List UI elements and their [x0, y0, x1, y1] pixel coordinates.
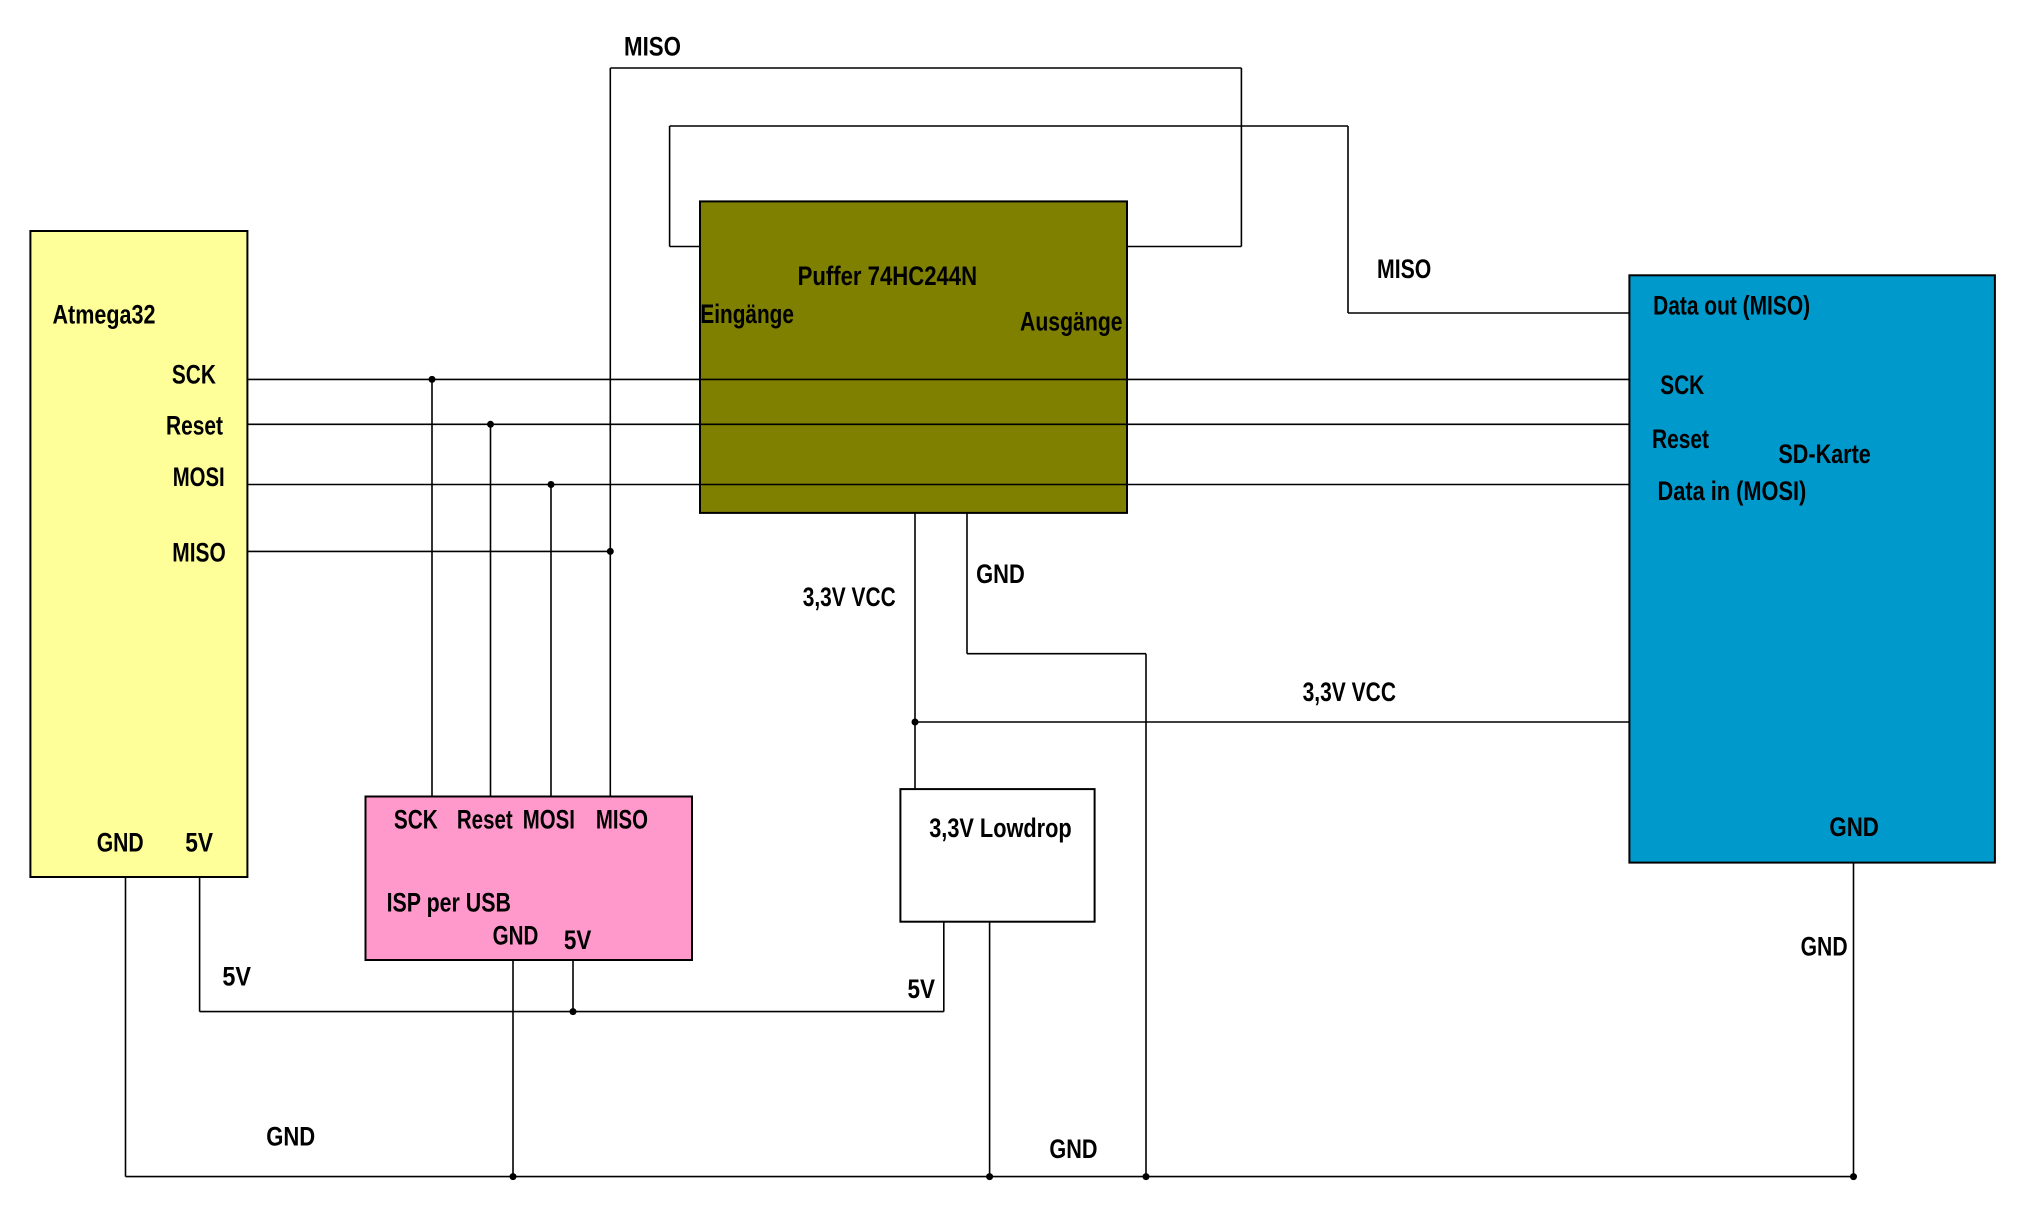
junction Reset-ISP	[487, 421, 494, 428]
wire buffer input stub	[670, 246, 700, 248]
svg-text:Ausgänge: Ausgänge	[1020, 306, 1123, 336]
wire buffer input vertical	[669, 126, 671, 247]
junction 5V bus	[570, 1008, 577, 1015]
wire 3,3V VCC vertical from buffer	[914, 513, 916, 789]
svg-text:MISO: MISO	[172, 537, 226, 567]
wire MISO top right vertical	[1240, 68, 1242, 247]
3,3V Lowdrop block	[900, 789, 1094, 922]
wire Lowdrop 5V vertical	[943, 922, 945, 1012]
junction MOSI-ISP	[548, 481, 555, 488]
svg-text:ISP per USB: ISP per USB	[387, 887, 511, 917]
svg-text:GND: GND	[976, 559, 1025, 589]
svg-text:Data out (MISO): Data out (MISO)	[1653, 291, 1810, 321]
wire MISO horizontal Atmega to junction	[247, 550, 610, 552]
svg-text:GND: GND	[266, 1121, 315, 1151]
svg-text:MOSI: MOSI	[523, 804, 575, 834]
svg-text:GND: GND	[1801, 932, 1848, 962]
svg-text:GND: GND	[97, 828, 144, 858]
wire ISP 5V vertical	[572, 960, 574, 1012]
svg-text:MISO: MISO	[1377, 254, 1431, 284]
svg-text:SCK: SCK	[394, 804, 438, 834]
svg-text:5V: 5V	[185, 828, 213, 858]
svg-text:SD-Karte: SD-Karte	[1778, 439, 1870, 469]
wire ISP GND vertical	[512, 960, 514, 1177]
junction buffer GND bus	[1143, 1173, 1150, 1180]
wire SD GND vertical	[1853, 863, 1855, 1177]
svg-text:SCK: SCK	[1660, 370, 1704, 400]
svg-text:Reset: Reset	[457, 804, 513, 834]
wire MISO vertical top to ISP	[609, 68, 611, 797]
wire buffer output stub	[1127, 246, 1241, 248]
svg-text:GND: GND	[1829, 812, 1879, 842]
svg-text:5V: 5V	[564, 925, 591, 955]
wire 5V bus horizontal	[200, 1011, 944, 1013]
junction VCC	[912, 719, 919, 726]
wire Atmega GND down	[125, 877, 127, 1177]
svg-text:3,3V Lowdrop: 3,3V Lowdrop	[929, 813, 1071, 843]
wire MISO top horizontal	[610, 67, 1241, 69]
wire buffer input top horizontal	[670, 125, 1348, 127]
svg-text:Data in (MOSI): Data in (MOSI)	[1658, 476, 1807, 506]
svg-text:MISO: MISO	[624, 32, 681, 62]
junction SD GND bus	[1850, 1173, 1857, 1180]
junction SCK-ISP	[429, 376, 436, 383]
wire Data out MISO into SD	[1348, 312, 1629, 314]
wire GND bottom bus	[126, 1176, 1854, 1178]
wire Reset vertical to ISP	[490, 424, 492, 797]
svg-text:MOSI: MOSI	[173, 462, 225, 492]
svg-text:Atmega32: Atmega32	[53, 299, 156, 329]
junction MISO-ISP	[607, 548, 614, 555]
wire MOSI horizontal Atmega to SD	[247, 484, 1629, 486]
svg-text:GND: GND	[1049, 1134, 1097, 1164]
SD-Karte block	[1629, 275, 1995, 862]
wire SCK through buffer	[700, 378, 1127, 380]
svg-text:3,3V VCC: 3,3V VCC	[803, 582, 896, 612]
svg-text:GND: GND	[493, 921, 539, 951]
wire buffer GND down to bus	[1145, 654, 1147, 1177]
svg-text:5V: 5V	[222, 962, 251, 992]
svg-text:Eingänge: Eingänge	[700, 299, 794, 329]
Puffer 74HC244N block	[700, 201, 1127, 513]
wire MISO right vertical	[1347, 126, 1349, 313]
wire SCK vertical to ISP	[431, 379, 433, 797]
svg-text:3,3V VCC: 3,3V VCC	[1303, 677, 1396, 707]
wire SCK horizontal Atmega to SD	[247, 378, 1629, 380]
junction Lowdrop GND bus	[986, 1173, 993, 1180]
junction ISP GND bus	[510, 1173, 517, 1180]
wire Reset through buffer	[700, 423, 1127, 425]
wire Atmega 5V down	[199, 877, 201, 1012]
svg-text:SCK: SCK	[172, 360, 216, 390]
wire MOSI vertical to ISP	[550, 485, 552, 798]
svg-text:5V: 5V	[908, 974, 936, 1004]
wire 3,3V VCC horizontal to SD	[915, 721, 1629, 723]
svg-text:Puffer 74HC244N: Puffer 74HC244N	[798, 261, 978, 291]
svg-text:MISO: MISO	[596, 804, 648, 834]
wire MOSI through buffer	[700, 484, 1127, 486]
wire buffer GND vertical	[966, 513, 968, 654]
Atmega32 block	[30, 231, 247, 877]
wire Lowdrop GND vertical	[989, 922, 991, 1177]
ISP per USB block	[366, 797, 693, 961]
svg-text:Reset: Reset	[1652, 424, 1709, 454]
wire Reset horizontal Atmega to SD	[247, 423, 1629, 425]
svg-text:Reset: Reset	[166, 411, 223, 441]
wire buffer GND horizontal	[967, 653, 1146, 655]
